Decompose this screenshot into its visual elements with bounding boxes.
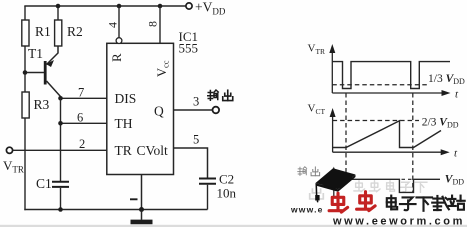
pin 4 R with bubble <box>106 6 125 62</box>
op-amp U1: IC1 555 timer box <box>107 29 198 175</box>
svg-text:R3: R3 <box>34 97 50 112</box>
svg-text:R: R <box>109 53 124 62</box>
watermark text 电子下载站 <box>387 196 465 211</box>
svg-text:DIS: DIS <box>115 91 137 106</box>
transistor T1 (PNP) <box>28 46 61 98</box>
svg-text:6: 6 <box>77 111 83 125</box>
wire: VCT x-axis <box>333 151 445 153</box>
svg-text:CVolt: CVolt <box>137 143 169 158</box>
svg-text:www.e: www.e <box>290 205 324 215</box>
svg-text:Q: Q <box>154 104 164 119</box>
svg-text:1/3 VDD: 1/3 VDD <box>428 73 465 86</box>
svg-text:TH: TH <box>115 116 133 131</box>
pin 5 CVolt wire <box>174 133 208 178</box>
wire: R2 top <box>57 6 59 20</box>
junction: C1 bottom rail <box>58 207 63 212</box>
junction: collector/DIS node <box>58 96 63 101</box>
capacitor C2 10n <box>199 172 237 210</box>
wire: output trace <box>346 179 414 192</box>
svg-text:TR: TR <box>115 143 132 158</box>
svg-text:10n: 10n <box>217 186 237 201</box>
wire: R1 bottom to base node <box>24 46 26 92</box>
pin 7 DIS wire <box>61 86 137 107</box>
wire: bottom rail <box>24 209 207 211</box>
resistor R1 <box>22 20 51 46</box>
svg-text:R2: R2 <box>67 24 83 39</box>
pin 1 ground wire <box>130 175 142 210</box>
svg-text:T1: T1 <box>28 46 43 61</box>
wire: VTR trace <box>332 62 450 89</box>
svg-text:7: 7 <box>78 86 84 100</box>
node: 输出 output label <box>208 90 233 101</box>
junction: R2 top rail <box>56 4 61 9</box>
wire: VDD dashed level <box>402 178 441 180</box>
junction: TH node <box>58 121 63 126</box>
wire: output y-axis <box>333 172 335 197</box>
svg-text:2: 2 <box>79 137 85 151</box>
pin 6 TH wire <box>61 111 133 132</box>
wire: left rail R1 top <box>24 6 26 20</box>
wire: base <box>25 72 44 74</box>
svg-text:3: 3 <box>193 95 199 109</box>
svg-text:C1: C1 <box>36 176 52 191</box>
svg-text:555: 555 <box>179 41 199 56</box>
svg-text:VTR: VTR <box>3 158 24 175</box>
bottom gray band <box>0 225 467 227</box>
svg-text:R1: R1 <box>35 24 51 39</box>
svg-text:t: t <box>454 148 458 160</box>
capacitor C1 <box>36 176 69 210</box>
resistor R2 <box>55 20 83 46</box>
wire: R3 bottom to bottom rail <box>24 118 26 210</box>
node: output waveform label 输出 <box>298 167 320 176</box>
svg-text:2/3 VDD: 2/3 VDD <box>422 117 459 130</box>
svg-text:VCT: VCT <box>308 103 326 116</box>
pin 8 Vcc <box>146 6 171 77</box>
svg-text:C2: C2 <box>219 172 234 187</box>
resistor R3 <box>22 92 50 118</box>
wire: dashed vertical t1 <box>345 93 347 179</box>
junction: base node <box>23 70 28 75</box>
svg-text:VTR: VTR <box>308 43 326 56</box>
pin 2 TR wire <box>13 137 168 158</box>
svg-text:5: 5 <box>193 133 199 147</box>
svg-text:t: t <box>455 89 459 101</box>
terminal +VDD <box>186 0 226 16</box>
junction: pin4 top rail <box>117 4 122 9</box>
wire: VCT sawtooth trace <box>333 121 441 148</box>
watermark text 虫虫 red <box>329 192 375 212</box>
ground <box>131 210 153 222</box>
wire: VTR y-axis <box>331 49 333 93</box>
wire: 1/3 VDD dashed level <box>332 84 427 86</box>
wire: C1 vertical <box>60 98 62 181</box>
wire: 2/3 VDD dashed level <box>333 120 419 122</box>
wire: +VDD top rail <box>24 5 185 7</box>
svg-text:8: 8 <box>146 21 160 27</box>
svg-text:VDD: VDD <box>445 174 464 187</box>
junction: pin8 top rail <box>158 4 163 9</box>
terminal VTR input <box>3 147 24 174</box>
wire: dashed vertical t2 <box>412 93 414 192</box>
wire: VTR x-axis <box>332 92 446 94</box>
svg-text:+VDD: +VDD <box>195 0 226 16</box>
svg-text:4: 4 <box>106 22 120 28</box>
graduation cap <box>315 168 355 202</box>
junction: pin1 bottom rail <box>139 207 144 212</box>
pin 3 Q output <box>154 95 219 119</box>
wire: VCT y-axis <box>332 113 334 152</box>
